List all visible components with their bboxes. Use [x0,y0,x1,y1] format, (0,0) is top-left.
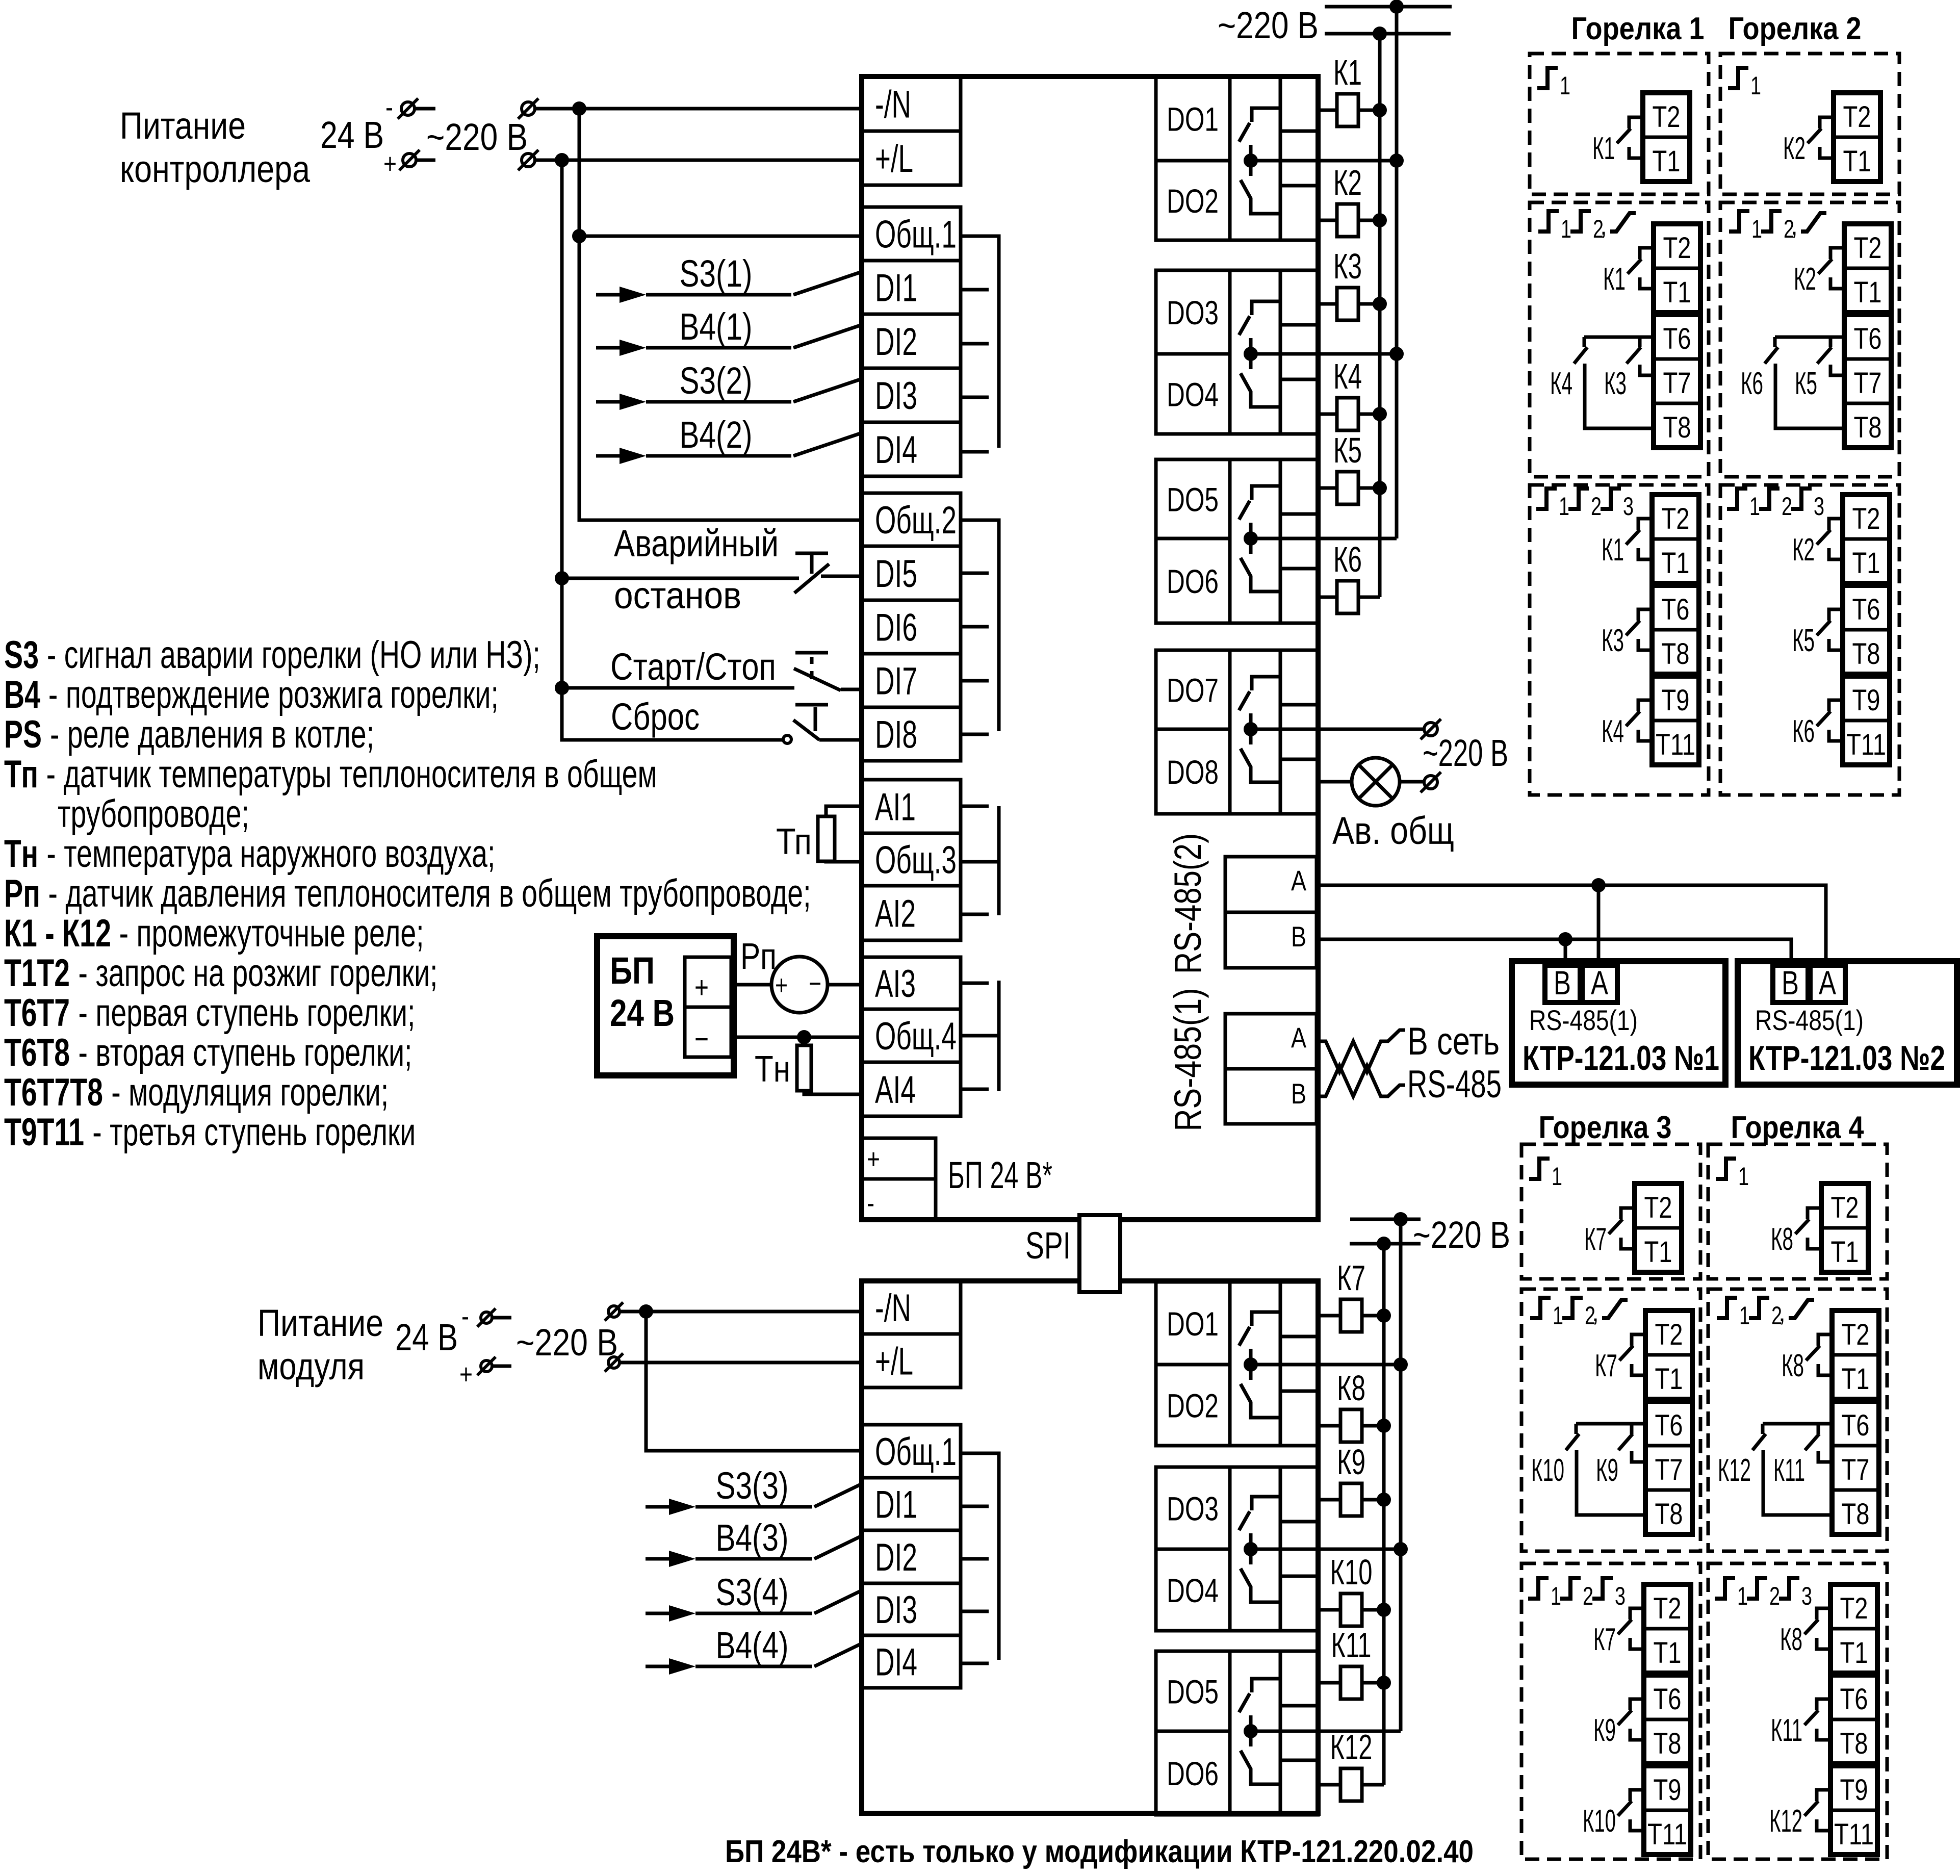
svg-text:T8: T8 [1663,411,1691,444]
svg-text:B4(2): B4(2) [680,414,753,456]
svg-text:1: 1 [1738,1162,1749,1191]
relay coil К7 [1318,1314,1340,1318]
svg-text:К4: К4 [1602,714,1624,749]
blade [1806,1346,1820,1360]
svg-text:К4: К4 [1550,366,1572,401]
svg-text:RS-485(1): RS-485(1) [1755,1004,1864,1036]
NO blade [1239,1693,1250,1712]
svg-text:T1: T1 [1840,1636,1868,1669]
svg-text:Горелка 4: Горелка 4 [1731,1110,1864,1145]
svg-text:Общ.3: Общ.3 [875,839,957,882]
svg-text:К12: К12 [1330,1727,1373,1767]
svg-text:B: B [1291,920,1306,953]
svg-text:К8: К8 [1337,1368,1365,1408]
svg-text:T9: T9 [1840,1774,1868,1807]
junction on +/L wire [555,153,569,167]
svg-text:24 В: 24 В [610,992,675,1034]
internal stub bus: Общ.2 group [961,520,999,731]
relay coil К9 [1318,1498,1340,1502]
svg-text:T1: T1 [1842,1363,1870,1396]
changeover contact [1252,1679,1280,1692]
~220V line A [1325,5,1452,9]
svg-text:DO6: DO6 [1167,562,1219,600]
terminal group AI1 Общ.3 AI2 [862,780,961,940]
blade [1626,530,1640,545]
svg-text:T11: T11 [1647,1818,1687,1851]
switch blade [793,433,862,456]
svg-text:T1: T1 [1655,1363,1683,1396]
bus ~220V line B (top) [1378,34,1382,597]
terminal ø module N [605,1302,623,1321]
contact К6 [1829,700,1843,711]
changeover contact [1252,301,1280,315]
svg-text:К6: К6 [1792,714,1815,749]
blade [1818,259,1832,274]
svg-text:- модуляция горелки;: - модуляция горелки; [111,1071,389,1114]
svg-text:К8: К8 [1780,1622,1802,1657]
junction on -/N wire [572,101,586,116]
svg-text:DI8: DI8 [875,713,917,757]
DI stub y=886 [961,450,989,454]
svg-text:1: 1 [1561,215,1571,243]
svg-text:DO5: DO5 [1167,1673,1219,1711]
rail B from +/L down to DI5/DI7/DI8 switches [562,160,784,740]
common stub [1249,1349,1253,1380]
module DI4 input B4(4) [646,1665,675,1668]
svg-text:,: , [1592,1298,1599,1327]
RS-485(1) terminal block [1225,1014,1317,1124]
~220V line A (module) [1350,1218,1421,1221]
svg-text:+: + [383,147,397,179]
svg-text:T8: T8 [1854,411,1882,444]
T6 line [1576,1422,1645,1426]
changeover contact [1252,1497,1280,1510]
svg-text:T7: T7 [1842,1453,1870,1486]
terminal ø lamp N [1421,719,1441,739]
svg-text:3: 3 [1814,492,1824,521]
svg-text:DO4: DO4 [1167,1572,1219,1609]
blade К10 [1566,1434,1579,1450]
svg-text:К7: К7 [1584,1222,1607,1257]
terminal group Общ.2 DI5-DI8 [862,493,961,761]
svg-text:S3(3): S3(3) [716,1464,789,1507]
svg-text:~220 В: ~220 В [1423,732,1508,774]
svg-text:Тп: Тп [776,821,812,862]
svg-text:К5: К5 [1333,430,1362,470]
svg-text:К2: К2 [1794,262,1816,297]
terminal group power (module): -/N +/L [862,1281,961,1387]
svg-text:B: B [1782,964,1799,1001]
AI4 stub [961,1088,989,1091]
module DI stub y=3057 [961,1557,989,1561]
common stub [1249,338,1253,369]
svg-text:К9: К9 [1596,1453,1618,1488]
svg-text:T2: T2 [1663,232,1691,265]
DI2 input B4(1) [596,346,626,350]
NO blade [793,720,819,740]
svg-text:Рп: Рп [740,936,777,977]
svg-text:~220 В: ~220 В [516,1321,618,1364]
svg-text:К2: К2 [1792,532,1815,568]
expansion module main box (bottom) [862,1281,1318,1813]
svg-text:DO6: DO6 [1167,1755,1219,1792]
svg-text:DI2: DI2 [875,320,917,364]
svg-text:К12: К12 [1718,1453,1751,1488]
svg-text:К3: К3 [1602,623,1624,658]
burner 1 scheme 1 [1530,54,1709,194]
relay coil К12 [1318,1783,1340,1787]
junction module rail [639,1304,653,1319]
burner 1 scheme 2 [1530,202,1709,477]
blade [1626,711,1640,726]
blade [1618,1801,1632,1816]
contact К4 [1638,700,1652,711]
svg-text:-: - [867,1187,874,1219]
svg-text:AI2: AI2 [875,892,916,936]
svg-text:DI1: DI1 [875,1483,917,1527]
svg-text:T1: T1 [1663,276,1691,309]
svg-text:Общ.2: Общ.2 [875,499,957,542]
svg-text:Т1Т2: Т1Т2 [4,952,70,995]
bus ~220V line B (module) [1382,1244,1386,1785]
svg-text:К8: К8 [1782,1348,1804,1383]
svg-text:- сигнал аварии горелки (НО ил: - сигнал аварии горелки (НО или НЗ); [47,633,540,677]
svg-text:модуля: модуля [257,1345,365,1387]
svg-text:AI1: AI1 [875,786,916,829]
svg-text:T2: T2 [1662,502,1690,535]
svg-text:К6: К6 [1741,366,1763,401]
DI3 input S3(2) [596,400,626,404]
changeover contact [1252,108,1280,122]
~220V line B [1325,32,1451,36]
svg-text:T1: T1 [1854,276,1882,309]
svg-text:RS-485: RS-485 [1407,1063,1502,1106]
svg-text:1: 1 [1559,492,1569,521]
contact К1 [1638,519,1652,530]
svg-text:Т6Т7: Т6Т7 [4,991,70,1035]
junction to Тн [797,1030,811,1044]
svg-text:К3: К3 [1333,246,1362,286]
svg-text:К10: К10 [1531,1453,1564,1488]
blade К3 [1627,347,1641,364]
terminal ø 220V N [518,98,538,119]
contact К7 [1630,1608,1644,1620]
relay coil К1 [1318,109,1337,112]
svg-text:1: 1 [1749,492,1760,521]
svg-text:1: 1 [1552,1162,1562,1191]
~220V line B (module) [1350,1242,1421,1246]
common stub [1249,1533,1253,1564]
svg-text:1: 1 [1560,71,1570,100]
svg-text:Питание: Питание [120,105,246,147]
burner 4 scheme 2 [1708,1289,1887,1551]
wire RS-485(2) A to KTR modules [1318,885,1826,967]
terminal ø 220V L [518,150,538,170]
svg-text:+: + [867,1143,880,1175]
svg-text:T6: T6 [1840,1683,1868,1716]
svg-text:RS-485(1): RS-485(1) [1529,1004,1638,1036]
svg-text:Т6Т8: Т6Т8 [4,1031,70,1074]
changeover contact [1252,677,1280,690]
svg-text:-/N: -/N [875,1287,911,1330]
terminal group module Общ.1 DI1-DI4 [862,1425,961,1688]
svg-text:T2: T2 [1831,1191,1859,1224]
module DI stub y=3160 [961,1610,989,1613]
blade [1626,621,1640,635]
svg-text:A: A [1819,964,1836,1001]
contact К7 [1621,1208,1635,1219]
sensor Тп (resistor) [818,816,835,861]
svg-text:К7: К7 [1595,1348,1617,1383]
DI stub y=1124 [961,572,989,575]
svg-text:Общ.4: Общ.4 [875,1015,957,1058]
svg-text:T6: T6 [1854,322,1882,355]
svg-text:DO1: DO1 [1167,100,1219,138]
svg-text:T2: T2 [1654,1592,1682,1625]
junction common DO3/4 module [1394,1542,1408,1556]
NO blade [1239,316,1250,335]
svg-text:-: - [385,91,393,123]
NO blade [1239,501,1250,520]
wire RS-485(2) B to KTR modules [1318,939,1791,967]
svg-text:К12: К12 [1769,1804,1802,1839]
DI stub y=568 [961,288,989,292]
switch blade [794,669,841,690]
svg-text:К1: К1 [1333,53,1362,92]
svg-text:К11: К11 [1773,1453,1805,1488]
svg-text:Т9Т11: Т9Т11 [4,1111,84,1154]
svg-text:- первая ступень горелки;: - первая ступень горелки; [78,991,415,1035]
svg-text:DI2: DI2 [875,1536,917,1579]
blade [1795,1219,1809,1234]
svg-text:К1 - К12: К1 - К12 [4,912,111,955]
contact К10 [1630,1790,1644,1801]
burner 2 scheme 3 [1720,485,1899,795]
svg-text:- промежуточные реле;: - промежуточные реле; [119,912,424,955]
svg-text:DI3: DI3 [875,374,917,418]
common node [1244,1724,1258,1738]
RS-485(2) terminal block [1225,857,1317,968]
svg-text:T11: T11 [1846,728,1886,761]
svg-text:- подтверждение розжига горелк: - подтверждение розжига горелки; [48,673,499,716]
svg-text:DO3: DO3 [1167,1490,1219,1528]
svg-text:3: 3 [1615,1582,1626,1610]
burner 3 scheme 2 [1521,1289,1700,1551]
controller main box (top module) [862,76,1318,1220]
relay coil К6 [1318,596,1337,599]
plunger [810,553,814,574]
AI1 stub [961,805,989,808]
common stub [1249,145,1253,176]
switch blade [793,379,862,402]
svg-text:S3: S3 [4,633,39,677]
terminal group AI3 Общ.4 AI4 [862,957,961,1116]
svg-text:T8: T8 [1842,1498,1870,1531]
T6 line [1775,336,1844,339]
svg-text:RS-485(1): RS-485(1) [1167,988,1209,1132]
svg-text:Ав. общ: Ав. общ [1332,809,1454,853]
SPI connector [1079,1215,1120,1292]
switch blade [793,325,862,348]
contact К1 [1640,248,1654,259]
wire to -/N [535,107,862,111]
contact К7 [1632,1334,1645,1346]
svg-text:T2: T2 [1653,100,1681,134]
svg-text:Общ.1: Общ.1 [875,1430,957,1474]
svg-text:,: , [1778,1298,1786,1327]
svg-text:-: - [461,1300,469,1332]
common node [1244,153,1258,168]
contact К8 [1817,1608,1830,1620]
svg-text:AI4: AI4 [875,1068,916,1112]
wire to module -/N [620,1310,862,1314]
svg-text:T1: T1 [1644,1236,1672,1269]
svg-text:Тн: Тн [4,832,38,876]
burner 4 scheme 1 [1708,1144,1887,1279]
svg-text:T7: T7 [1663,367,1691,400]
plunger [814,707,817,731]
DI stub y=1229 [961,625,989,629]
svg-text:БП: БП [610,949,655,992]
svg-text:T2: T2 [1842,1318,1870,1351]
svg-text:A: A [1291,1021,1307,1053]
module DI stub y=3262 [961,1662,989,1665]
rail module -/N to Общ.1 [646,1312,862,1451]
svg-text:- датчик температуры теплоноси: - датчик температуры теплоносителя в общ… [46,753,657,796]
svg-text:−: − [694,1022,709,1056]
T6 line [1584,336,1654,339]
svg-text:DO1: DO1 [1167,1305,1219,1343]
svg-text:К6: К6 [1333,539,1362,579]
svg-text:T9: T9 [1654,1774,1682,1807]
svg-text:Горелка 2: Горелка 2 [1729,11,1862,46]
lamp Ав. общ [1352,758,1400,806]
svg-text:DO8: DO8 [1167,753,1219,791]
internal stub bus: module Общ.1 group [961,1453,999,1660]
svg-text:К1: К1 [1592,131,1615,166]
DI stub y=779 [961,396,989,399]
relay output block DO3/DO4 (module) [1156,1467,1318,1631]
relay coil К10 [1318,1608,1340,1612]
svg-text:Питание: Питание [257,1302,383,1344]
common node [1244,1357,1258,1372]
svg-text:B: B [1291,1077,1306,1110]
svg-text:T2: T2 [1843,100,1871,134]
contact К2 [1830,248,1844,259]
svg-text:К7: К7 [1593,1622,1616,1657]
common stub [1249,523,1253,554]
svg-text:- датчик давления теплоносител: - датчик давления теплоносителя в общем … [48,872,811,915]
common stub [1249,1715,1253,1746]
changeover contact [1252,486,1280,500]
latch bar [795,651,828,655]
latch dashed link [810,657,814,679]
svg-text:К8: К8 [1771,1222,1793,1257]
blade [1617,129,1631,143]
svg-text:S3(1): S3(1) [680,252,753,295]
svg-text:DI4: DI4 [875,1641,917,1684]
svg-text:+/L: +/L [875,137,913,181]
blade К5 [1817,347,1832,364]
svg-text:2: 2 [1769,1582,1780,1610]
terminal ø module L [605,1353,623,1372]
svg-text:T2: T2 [1840,1592,1868,1625]
relay coil К5 [1318,486,1337,490]
svg-text:T1: T1 [1831,1236,1859,1269]
svg-text:- запрос на розжиг горелки;: - запрос на розжиг горелки; [78,952,437,995]
svg-text:B: B [1554,964,1571,1001]
relay coil К11 [1318,1681,1340,1685]
svg-text:Тп: Тп [4,753,38,796]
svg-text:К9: К9 [1593,1713,1616,1748]
svg-text:- третья ступень горелки: - третья ступень горелки [92,1111,416,1154]
svg-text:- температура наружного воздух: - температура наружного воздуха; [46,832,495,876]
svg-text:останов: останов [614,574,741,616]
blade К6 [1765,347,1778,364]
relay output block DO3/DO4 (top module) [1156,270,1318,434]
internal stub bus: Общ.4 group [961,1034,999,1038]
svg-text:T6: T6 [1842,1409,1870,1442]
relay coil К8 [1318,1424,1340,1428]
DI1 input S3(1) [596,293,626,297]
svg-text:S3(2): S3(2) [680,359,753,402]
relay coil К2 [1318,219,1337,222]
common wires module DO pairs [1251,1363,1401,1367]
svg-text:КТР-121.03 №1: КТР-121.03 №1 [1523,1039,1719,1077]
svg-text:К4: К4 [1333,356,1362,396]
internal stub bus: Общ.3 group [961,860,999,864]
NO blade [1239,1511,1250,1530]
svg-text:1: 1 [1750,71,1761,100]
switch blade [814,1590,862,1613]
switch blade [793,272,862,295]
svg-text:T8: T8 [1840,1727,1868,1760]
svg-text:+/L: +/L [875,1340,913,1383]
svg-text:T7: T7 [1854,367,1882,400]
svg-text:DO2: DO2 [1167,1387,1219,1425]
svg-text:Рп: Рп [4,872,40,915]
svg-text:2: 2 [1591,492,1602,521]
contact К2 [1820,117,1834,129]
svg-text:T6: T6 [1654,1683,1682,1716]
plunger bar [795,552,828,555]
svg-text:DI6: DI6 [875,606,917,650]
blade [1619,1346,1633,1360]
svg-text:Горелка 1: Горелка 1 [1571,11,1705,46]
module DI3 input S3(4) [646,1612,675,1615]
burner 1 scheme 3 [1530,485,1709,795]
svg-text:- реле давления в котле;: - реле давления в котле; [50,713,374,756]
blade [1804,1620,1818,1634]
svg-text:1: 1 [1551,1582,1561,1610]
bus ~220V line A (module) [1399,1219,1403,1731]
svg-text:DO4: DO4 [1167,376,1219,414]
svg-text:T6: T6 [1662,593,1690,626]
blade [1808,129,1821,143]
NO blade [1239,123,1250,142]
svg-text:B4(3): B4(3) [716,1517,789,1559]
wire to module +/L [620,1361,862,1365]
svg-text:К11: К11 [1771,1713,1802,1748]
common node [1244,347,1258,361]
svg-text:К2: К2 [1333,163,1362,202]
svg-text:B4(4): B4(4) [716,1624,789,1666]
plunger bar [795,703,828,707]
contact К8 [1808,1208,1821,1219]
svg-text:Горелка 3: Горелка 3 [1539,1110,1672,1145]
terminal group power: -/N +/L [862,76,961,185]
svg-text:T8: T8 [1662,637,1690,671]
